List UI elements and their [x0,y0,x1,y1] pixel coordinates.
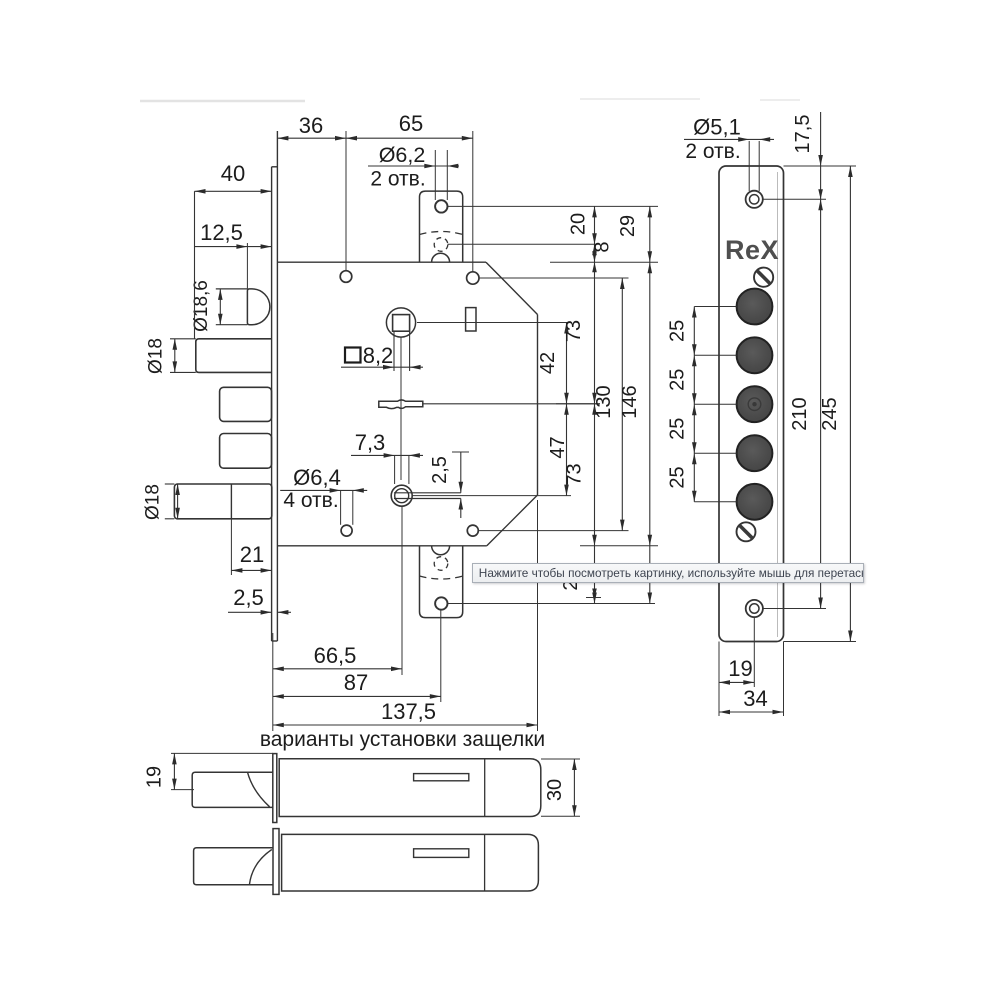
svg-text:8: 8 [592,241,614,252]
svg-text:2,5: 2,5 [233,585,264,610]
svg-text:Ø6,2: Ø6,2 [379,143,426,167]
svg-text:25: 25 [667,466,689,488]
svg-text:25: 25 [667,320,689,342]
svg-text:варианты установки защелки: варианты установки защелки [260,728,545,751]
svg-text:ReX: ReX [725,235,779,265]
svg-text:21: 21 [240,542,264,567]
svg-text:137,5: 137,5 [381,699,436,724]
svg-text:34: 34 [743,686,767,711]
svg-text:19: 19 [144,766,166,788]
svg-text:42: 42 [537,352,559,374]
svg-text:20: 20 [568,213,590,235]
svg-text:12,5: 12,5 [200,220,243,245]
svg-text:65: 65 [399,111,423,136]
svg-text:29: 29 [617,215,639,237]
svg-text:19: 19 [728,656,752,681]
svg-text:73: 73 [563,320,585,342]
svg-text:25: 25 [667,418,689,440]
svg-text:245: 245 [819,397,841,430]
svg-text:2,5: 2,5 [429,456,451,484]
svg-text:7,3: 7,3 [355,430,386,455]
svg-text:30: 30 [544,779,566,801]
svg-text:2 отв.: 2 отв. [685,140,740,163]
svg-text:Ø18: Ø18 [146,338,167,374]
svg-text:87: 87 [344,670,368,695]
svg-text:73: 73 [564,463,586,485]
svg-text:130: 130 [593,385,615,418]
svg-text:47: 47 [547,436,569,458]
svg-text:40: 40 [221,161,245,186]
svg-text:66,5: 66,5 [314,643,357,668]
svg-text:Ø18: Ø18 [143,484,164,520]
svg-text:36: 36 [299,113,323,138]
svg-text:2 отв.: 2 отв. [370,168,425,191]
svg-text:25: 25 [667,369,689,391]
svg-text:146: 146 [619,385,641,418]
svg-text:Ø5,1: Ø5,1 [693,115,741,140]
svg-text:Ø6,4: Ø6,4 [293,465,341,490]
svg-text:210: 210 [789,397,811,430]
svg-text:8,2: 8,2 [363,343,394,368]
svg-text:17,5: 17,5 [792,115,814,154]
svg-text:4 отв.: 4 отв. [283,489,338,512]
